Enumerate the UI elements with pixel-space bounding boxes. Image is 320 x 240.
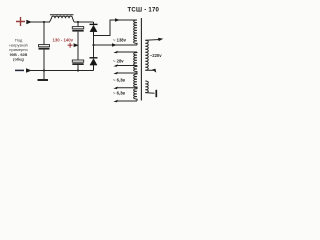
capacitor C1 bbox=[39, 45, 50, 49]
svg-text:~ 138v: ~ 138v bbox=[113, 37, 127, 42]
wire top rail right bbox=[74, 21, 94, 23]
tap wire open (73) bbox=[116, 72, 137, 74]
node + (positive output terminal) bbox=[16, 17, 25, 26]
primary tap wire bbox=[145, 69, 153, 71]
wire arrow into - rail bbox=[26, 68, 32, 72]
output note text block bbox=[9, 38, 28, 62]
svg-text:~ 6,3в: ~ 6,3в bbox=[113, 91, 125, 96]
primary tap arrow bbox=[152, 69, 156, 73]
tap arrow (101) bbox=[113, 100, 117, 103]
wire top rail left bbox=[31, 21, 50, 23]
tap arrow (66) bbox=[113, 64, 117, 67]
node junction C3/bottom rail bbox=[77, 69, 79, 71]
wire arrow into + rail bbox=[26, 20, 32, 25]
transformer secondary winding W3 bbox=[134, 66, 137, 73]
svg-text:ТСШ - 170: ТСШ - 170 bbox=[128, 7, 160, 13]
inductor L1 (filter choke) bbox=[50, 15, 75, 22]
wire arrow on node B lead bbox=[112, 43, 117, 46]
diode D1 bbox=[90, 22, 98, 36]
wire C1 branch lower bbox=[43, 50, 45, 71]
node + midpoint marker bbox=[68, 43, 73, 48]
tap arrow (73) bbox=[113, 72, 117, 75]
wire C2-C3 link bbox=[77, 32, 79, 60]
svg-text:~220v: ~220v bbox=[150, 53, 162, 58]
tap wire open (52) bbox=[116, 51, 137, 53]
wire arrow to cap midpoint bbox=[74, 43, 79, 47]
tap wire open (88.5) bbox=[116, 87, 137, 89]
primary bottom lead wire bbox=[145, 92, 154, 95]
node B junction bbox=[92, 44, 94, 46]
wire C1 branch upper bbox=[43, 22, 45, 45]
transformer secondary winding W2 bbox=[134, 52, 137, 65]
svg-text:~ 6,3в: ~ 6,3в bbox=[113, 77, 125, 82]
transformer secondary winding W4 bbox=[134, 73, 137, 88]
transformer secondary winding W1 bbox=[134, 20, 137, 45]
transformer secondary winding W5 bbox=[134, 88, 137, 101]
node junction C1/top rail bbox=[43, 21, 45, 23]
tap wire open (66) bbox=[116, 65, 137, 67]
primary top lead wire bbox=[145, 39, 159, 42]
tap arrow (88.5) bbox=[113, 87, 117, 90]
transformer primary winding P1 bbox=[145, 40, 148, 70]
capacitor C2 bbox=[72, 22, 83, 31]
diode D2 bbox=[90, 58, 98, 71]
primary terminal bar bbox=[155, 90, 157, 97]
wire arrow on top lead bbox=[115, 18, 120, 21]
wire bottom rail bbox=[31, 70, 94, 72]
wire node B to transformer tap bbox=[94, 44, 138, 46]
wire C3 to bottom rail bbox=[77, 65, 79, 71]
svg-text:(общ): (общ) bbox=[13, 57, 24, 62]
svg-text:~ 28v: ~ 28v bbox=[113, 58, 124, 63]
node A wire to transformer top bbox=[94, 20, 138, 36]
node junction C1/bottom rail bbox=[43, 69, 45, 71]
node junction C2/top rail bbox=[77, 21, 79, 23]
node - (negative output terminal) bbox=[15, 69, 24, 71]
primary top lead arrow bbox=[158, 38, 163, 41]
transformer core bbox=[140, 18, 142, 101]
svg-text:130 - 140v: 130 - 140v bbox=[53, 38, 74, 43]
transformer primary winding P2 bbox=[145, 81, 148, 93]
capacitor C3 bbox=[72, 60, 83, 64]
ground (chassis) bbox=[38, 71, 49, 81]
wire D1-D2 link bbox=[93, 36, 95, 58]
tap arrow (52) bbox=[113, 51, 117, 54]
tap wire open (101) bbox=[116, 100, 137, 102]
